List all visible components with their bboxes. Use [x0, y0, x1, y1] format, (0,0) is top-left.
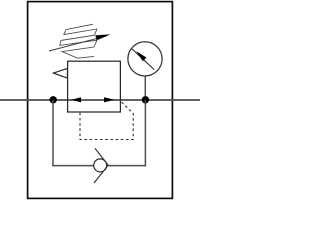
relief vent triangle — [53, 68, 67, 78]
adjustment arrow — [49, 34, 111, 51]
gauge needle — [132, 49, 154, 70]
check valve — [94, 148, 109, 183]
wire: bypass bottom right — [108, 165, 146, 167]
wire: bypass bottom left — [52, 165, 94, 167]
pilot line (dashed) — [80, 102, 133, 139]
wire: gauge stem — [144, 76, 146, 100]
junction dot (left) — [50, 96, 57, 103]
pressure gauge — [128, 42, 162, 76]
wire: bypass left — [52, 100, 54, 167]
flow path arrow (right, inside regulator) — [104, 97, 115, 102]
wire: main flow line — [0, 99, 200, 101]
adjustment spring — [60, 24, 97, 58]
junction dot (right) — [142, 96, 149, 103]
flow path arrow (left, inside regulator) — [72, 97, 82, 102]
regulator body — [68, 61, 121, 112]
wire: bypass right — [144, 100, 146, 167]
